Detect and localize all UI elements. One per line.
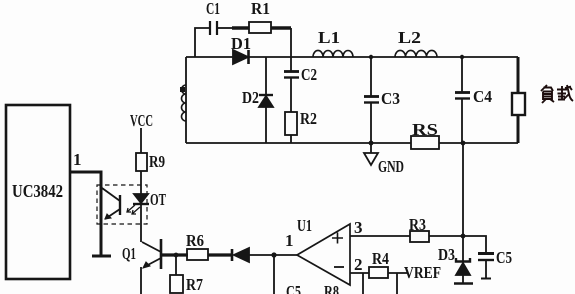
load resistor (negative/load) <box>517 57 520 93</box>
wire R2 to bottom rail <box>290 135 292 143</box>
transformer secondary winding T1 <box>185 57 187 143</box>
node L1/C3 <box>369 55 373 59</box>
wire C1 to R1 <box>218 27 234 29</box>
svg-text:R8: R8 <box>324 282 339 294</box>
wire pin1 to optocoupler collector (L-shape) <box>70 172 101 256</box>
diode D4 <box>231 249 234 261</box>
svg-text:C5: C5 <box>496 248 512 267</box>
ground bar at optocoupler emitter <box>92 255 111 258</box>
node base/R7 junction <box>174 253 179 258</box>
snubber: wire up from rail <box>195 28 209 57</box>
op-amp minus sign <box>334 266 344 268</box>
svg-text:1: 1 <box>73 150 82 169</box>
wire junction to R7 <box>175 255 177 275</box>
wire diode to op-amp output node <box>249 254 297 256</box>
svg-text:C1: C1 <box>206 0 220 18</box>
svg-text:OT: OT <box>150 190 166 209</box>
node GND junction <box>369 141 374 146</box>
top rail wire <box>186 56 233 58</box>
resistor R2 <box>285 112 297 135</box>
resistor R1 <box>249 22 271 33</box>
wire node down to R3 node B <box>462 143 464 236</box>
svg-text:C5: C5 <box>286 282 301 294</box>
winding polarity dot <box>180 87 185 92</box>
svg-text:Q1: Q1 <box>122 244 136 263</box>
optocoupler LED (on vertical wire) <box>134 194 148 203</box>
wire node A down to edge <box>273 255 275 294</box>
optocoupler light arrows <box>127 205 135 212</box>
optocoupler phototransistor <box>119 195 121 215</box>
resistor R3 <box>410 231 429 242</box>
wire Q1 emitter down to edge <box>140 267 142 294</box>
node A junction <box>271 252 276 257</box>
wire node B to C5 <box>463 236 486 253</box>
wire R6 to diode D4 <box>208 253 232 256</box>
svg-text:D3: D3 <box>438 245 455 264</box>
wire R3 to node B <box>429 235 463 237</box>
svg-text:D2: D2 <box>242 88 259 107</box>
svg-text:GND: GND <box>378 157 404 176</box>
wire LED to Q1 collector <box>140 205 142 242</box>
resistor R7 <box>170 275 183 293</box>
svg-text:R2: R2 <box>300 109 317 128</box>
svg-text:R4: R4 <box>372 249 389 268</box>
svg-text:VREF: VREF <box>404 263 441 282</box>
svg-text:R3: R3 <box>409 215 426 234</box>
svg-text:VCC: VCC <box>130 111 153 130</box>
svg-text:UC3842: UC3842 <box>12 181 63 201</box>
node B junction <box>461 234 466 239</box>
capacitor C4 <box>461 57 463 92</box>
svg-text:C2: C2 <box>301 65 317 84</box>
svg-text:R6: R6 <box>186 231 204 250</box>
IC U2 UC3842 box <box>6 105 70 279</box>
svg-text:2: 2 <box>354 255 363 274</box>
wire Q1 base to R6 <box>162 253 188 256</box>
svg-text:C4: C4 <box>473 87 492 106</box>
svg-text:L2: L2 <box>398 28 421 47</box>
svg-text:R9: R9 <box>149 152 165 171</box>
capacitor C5 <box>478 252 494 255</box>
ground bar below D3 <box>454 282 473 285</box>
wire R9 to LED of optocoupler <box>140 171 142 194</box>
resistor R6 <box>187 249 208 260</box>
svg-text:3: 3 <box>354 218 363 237</box>
wire pin2 node down to edge <box>362 273 364 294</box>
ground GND symbol <box>370 143 372 153</box>
capacitor C3 <box>370 57 372 96</box>
label load (Chinese 负载) <box>541 85 573 103</box>
node L2/C4 <box>460 55 464 59</box>
svg-text:U1: U1 <box>297 216 312 235</box>
bottom rail wire <box>186 142 411 144</box>
svg-text:L1: L1 <box>318 28 340 47</box>
resistor R4 <box>369 267 388 278</box>
wire VCC to R9 <box>140 128 142 153</box>
wire R4 to VREF <box>388 272 407 274</box>
optocoupler OT dashed box <box>97 185 147 224</box>
wire R4 right node down to edge <box>396 273 398 294</box>
svg-text:C3: C3 <box>381 89 400 108</box>
svg-text:1: 1 <box>285 231 294 250</box>
svg-text:R1: R1 <box>251 0 270 18</box>
op-amp U1 <box>297 224 350 285</box>
svg-text:R7: R7 <box>186 275 203 294</box>
wire C2 to R2 <box>290 78 292 112</box>
wire R1 down to rail <box>271 26 291 29</box>
wire pin2 to R4 <box>350 272 369 274</box>
capacitor C2 <box>290 57 292 71</box>
resistor R9 <box>136 153 147 171</box>
op-amp plus sign <box>332 233 343 244</box>
node RS right / divider drop <box>461 141 466 146</box>
wire pin3 to R3 <box>350 235 410 237</box>
